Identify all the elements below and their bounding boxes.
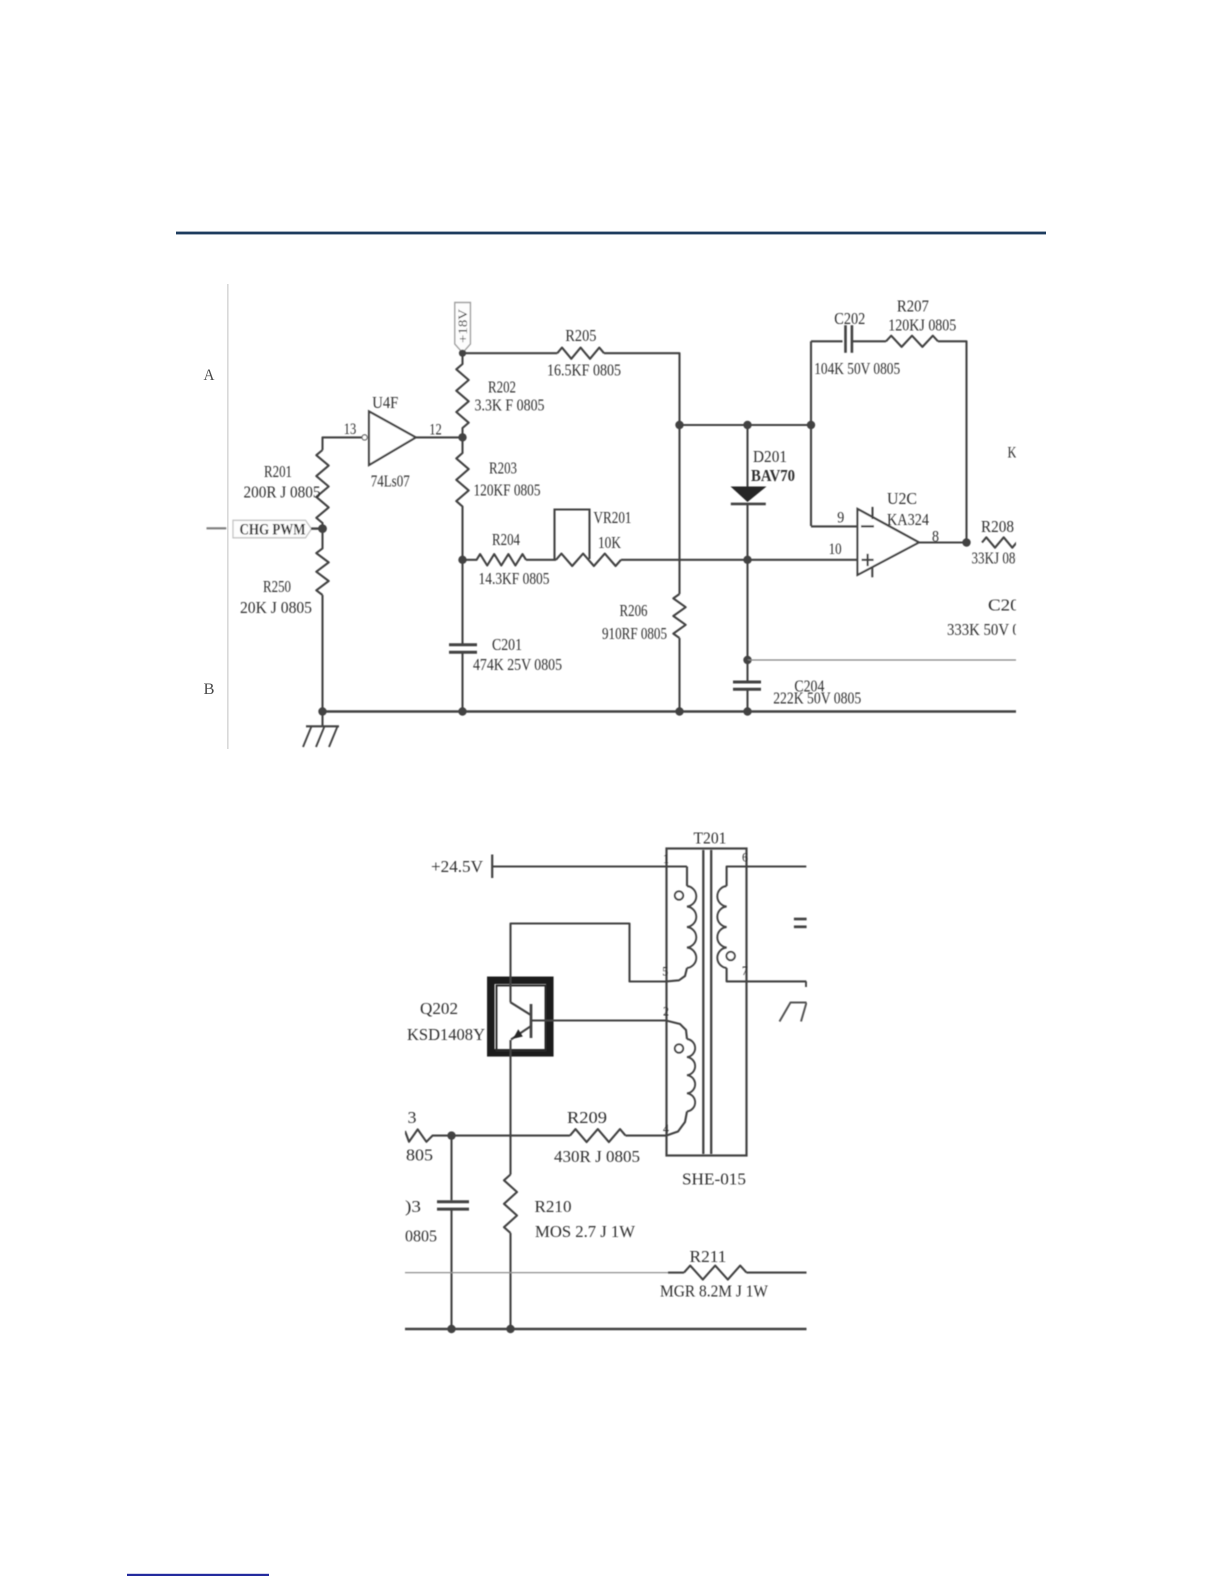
svg-text:CHG PWM: CHG PWM bbox=[240, 522, 306, 539]
pin 1 bbox=[663, 851, 669, 866]
clipped resistor left bbox=[405, 1129, 452, 1141]
label R208 bbox=[981, 517, 1014, 536]
node at x811 bbox=[807, 421, 815, 429]
wire node to C201 bbox=[461, 560, 463, 644]
label R204 bbox=[492, 530, 520, 549]
svg-text:120KF 0805: 120KF 0805 bbox=[474, 481, 541, 500]
wire junction to R209 bbox=[452, 1135, 571, 1137]
svg-text:12: 12 bbox=[429, 422, 442, 439]
svg-text:R209: R209 bbox=[567, 1108, 607, 1127]
pin 9 bbox=[837, 510, 844, 527]
clipped value 0805 bbox=[405, 1226, 437, 1245]
wire R211 right lead bbox=[747, 1272, 807, 1274]
wire junction to cap bbox=[450, 1136, 452, 1201]
svg-text:VR201: VR201 bbox=[594, 508, 632, 527]
wire thin R211 line bbox=[405, 1272, 668, 1274]
transistor Q202 frame bbox=[491, 980, 550, 1053]
svg-text:MOS 2.7 J 1W: MOS 2.7 J 1W bbox=[535, 1222, 636, 1241]
waveform symbol clipped bbox=[780, 1003, 807, 1022]
svg-text:R201: R201 bbox=[264, 462, 292, 481]
svg-text:74Ls07: 74Ls07 bbox=[371, 472, 410, 491]
svg-text:C201: C201 bbox=[492, 635, 522, 654]
svg-text:KA324: KA324 bbox=[887, 510, 929, 529]
node C204 rail junction bbox=[743, 707, 751, 715]
phase dot secondary bbox=[727, 952, 735, 960]
node at x747 bbox=[743, 421, 751, 429]
svg-text:4: 4 bbox=[663, 1121, 669, 1136]
node CHG PWM junction bbox=[318, 524, 327, 533]
label KSD1408Y bbox=[407, 1025, 485, 1044]
wire C202 to R207 bbox=[852, 340, 886, 342]
node R206 rail junction bbox=[675, 707, 683, 715]
svg-text:10K: 10K bbox=[598, 533, 622, 552]
wire CHG PWM to node bbox=[311, 527, 324, 529]
svg-text:K: K bbox=[1008, 444, 1017, 461]
svg-text:R211: R211 bbox=[690, 1247, 727, 1266]
pin 5 bbox=[662, 963, 668, 978]
pin 4 bbox=[663, 1121, 669, 1136]
wire R210 to rail bbox=[509, 1233, 511, 1329]
phase dot primary top bbox=[675, 891, 683, 899]
svg-text:R204: R204 bbox=[492, 530, 520, 549]
diode D201 BAV70 bbox=[731, 487, 766, 504]
capacitor C-lower bbox=[437, 1202, 469, 1209]
svg-text:U4F: U4F bbox=[372, 393, 398, 412]
ground bbox=[303, 712, 339, 748]
svg-text:13: 13 bbox=[344, 421, 357, 438]
node R209 left junction bbox=[447, 1131, 455, 1139]
svg-text:0805: 0805 bbox=[405, 1226, 437, 1245]
label R203 bbox=[489, 458, 517, 477]
value C201 bbox=[473, 655, 562, 674]
svg-text:20K J 0805: 20K J 0805 bbox=[240, 598, 312, 617]
svg-text:16.5KF 0805: 16.5KF 0805 bbox=[547, 360, 621, 379]
net label CHG PWM bbox=[233, 520, 312, 538]
svg-text:+24.5V: +24.5V bbox=[431, 857, 484, 876]
label R209 bbox=[567, 1108, 607, 1127]
value R211 bbox=[660, 1281, 769, 1300]
capacitor C202 bbox=[846, 325, 852, 353]
wire emitter bbox=[509, 1040, 511, 1175]
svg-text:6: 6 bbox=[742, 850, 748, 865]
row label A bbox=[204, 367, 216, 384]
svg-text:3: 3 bbox=[408, 1108, 417, 1127]
winding primary top bbox=[667, 867, 697, 982]
label R207 bbox=[897, 296, 929, 315]
label SHE-015 bbox=[682, 1169, 746, 1188]
svg-text:5: 5 bbox=[662, 963, 668, 978]
top rule bbox=[176, 232, 1046, 235]
resistor R209 bbox=[570, 1129, 626, 1142]
wire ground rail bbox=[323, 710, 1017, 712]
pin 13 bbox=[344, 421, 357, 438]
svg-text:+18V: +18V bbox=[456, 309, 470, 343]
value R205 bbox=[547, 360, 621, 379]
phase dot primary bottom bbox=[675, 1044, 683, 1052]
row label B bbox=[204, 681, 215, 698]
label Q202 bbox=[420, 999, 458, 1018]
value R207 bbox=[888, 316, 956, 335]
wire node row bbox=[680, 424, 812, 426]
wire R250 to ground rail bbox=[321, 595, 323, 712]
transformer T201 outer box bbox=[667, 849, 747, 1156]
svg-text:T201: T201 bbox=[694, 828, 727, 847]
resistor R207 bbox=[886, 336, 938, 347]
label R250 bbox=[263, 577, 291, 596]
svg-text:3.3K F 0805: 3.3K F 0805 bbox=[475, 396, 545, 415]
wire C201 to rail bbox=[461, 653, 463, 712]
svg-text:SHE-015: SHE-015 bbox=[682, 1169, 746, 1188]
wire R211 left lead bbox=[668, 1272, 684, 1274]
wire C204 leads bbox=[746, 660, 748, 712]
value R250 bbox=[240, 598, 312, 617]
potentiometer VR201 bbox=[555, 510, 622, 567]
wire R207 to right vertical bbox=[938, 341, 967, 542]
U4F input bubble bbox=[362, 435, 367, 440]
wire +18V to R205 bbox=[463, 352, 558, 354]
wire opamp output bbox=[919, 541, 967, 543]
svg-text:10: 10 bbox=[829, 541, 842, 558]
svg-text:R203: R203 bbox=[489, 458, 517, 477]
svg-text:14.3KF 0805: 14.3KF 0805 bbox=[479, 569, 550, 588]
resistor R202 bbox=[456, 353, 468, 437]
svg-text:KSD1408Y: KSD1408Y bbox=[407, 1025, 485, 1044]
left margin line bbox=[227, 284, 229, 749]
value R209 bbox=[554, 1147, 640, 1166]
resistor R201 bbox=[316, 450, 328, 528]
resistor R204 bbox=[463, 554, 527, 565]
svg-text:)3: )3 bbox=[405, 1197, 421, 1216]
svg-text:2: 2 bbox=[663, 1003, 669, 1018]
wire R205 to corner bbox=[604, 353, 680, 425]
label U2C bbox=[887, 489, 917, 508]
value C202 bbox=[814, 359, 900, 378]
svg-text:A: A bbox=[204, 367, 216, 384]
node R203 bottom junction bbox=[458, 556, 466, 564]
capacitor C201 bbox=[449, 645, 477, 652]
svg-text:C202: C202 bbox=[834, 309, 865, 328]
resistor R211 bbox=[684, 1266, 747, 1280]
wire U4F output bbox=[416, 436, 463, 438]
pin 2 bbox=[663, 1003, 669, 1018]
label T201 bbox=[694, 828, 727, 847]
node emitter rail junction bbox=[506, 1325, 514, 1333]
svg-text:R207: R207 bbox=[897, 296, 929, 315]
svg-text:B: B bbox=[204, 681, 215, 698]
clipped value C203 bbox=[947, 620, 1042, 639]
svg-text:R205: R205 bbox=[565, 326, 596, 345]
op-amp U4F buffer bbox=[369, 411, 416, 465]
svg-text:120KJ 0805: 120KJ 0805 bbox=[888, 316, 956, 335]
label D201 bbox=[753, 447, 787, 466]
wire +24.5V rail bbox=[492, 865, 687, 867]
wire R206 to rail bbox=[678, 638, 680, 712]
power label +24.5V bbox=[431, 855, 492, 879]
node at x679 bbox=[675, 421, 683, 429]
label R202 bbox=[488, 377, 516, 396]
label R210 bbox=[535, 1197, 572, 1216]
wire feedback left vertical bbox=[810, 341, 812, 526]
resistor R208 bbox=[982, 537, 1034, 547]
wire R204 to VR201 bbox=[526, 559, 556, 561]
wire VR201 to opamp plus bbox=[621, 559, 858, 561]
value R204 bbox=[479, 569, 550, 588]
wire lower ground rail bbox=[405, 1328, 807, 1330]
winding primary bottom bbox=[667, 1021, 696, 1136]
label R205 bbox=[565, 326, 596, 345]
label R206 bbox=[620, 601, 648, 620]
svg-text:200R J 0805: 200R J 0805 bbox=[244, 482, 321, 501]
clipped label 3 bbox=[408, 1108, 417, 1127]
svg-text:430R J 0805: 430R J 0805 bbox=[554, 1147, 640, 1166]
clipped value 805 bbox=[406, 1145, 433, 1164]
svg-text:R202: R202 bbox=[488, 377, 516, 396]
wire top to C202 bbox=[811, 340, 843, 342]
wire x679 down bbox=[678, 425, 680, 594]
node ground junction bbox=[318, 707, 326, 715]
node D201 pin10 junction bbox=[743, 556, 751, 564]
pin 8 bbox=[932, 528, 939, 545]
wire pin7 bottom bbox=[727, 968, 807, 987]
pin 12 bbox=[429, 422, 442, 439]
wire base bbox=[531, 1019, 667, 1021]
svg-text:910RF 0805: 910RF 0805 bbox=[602, 624, 667, 643]
resistor R206 bbox=[673, 594, 685, 638]
svg-text:R208: R208 bbox=[981, 517, 1014, 536]
node +18V junction bbox=[459, 350, 466, 357]
label KA324 bbox=[887, 510, 929, 529]
svg-text:104K 50V 0805: 104K 50V 0805 bbox=[814, 359, 900, 378]
wire D201 anode bbox=[746, 425, 748, 487]
wire cap to rail bbox=[450, 1209, 452, 1329]
wire pin6 top bbox=[727, 867, 807, 887]
label C201 bbox=[492, 635, 522, 654]
label C202 bbox=[834, 309, 865, 328]
left tick for CHG PWM bbox=[207, 527, 227, 529]
pin 7 bbox=[742, 963, 748, 978]
svg-text:Q202: Q202 bbox=[420, 999, 458, 1018]
value R202 bbox=[475, 396, 545, 415]
value R201 bbox=[244, 482, 321, 501]
battery symbol clipped bbox=[794, 919, 807, 927]
bottom-left blue rule bbox=[127, 1574, 269, 1576]
value R208 bbox=[972, 548, 1029, 567]
node D201 thin-line junction bbox=[743, 656, 751, 664]
svg-text:805: 805 bbox=[406, 1145, 433, 1164]
svg-text:D201: D201 bbox=[753, 447, 787, 466]
node C201 rail junction bbox=[458, 707, 466, 715]
label R201 bbox=[264, 462, 292, 481]
svg-text:1: 1 bbox=[663, 851, 669, 866]
resistor R203 bbox=[456, 437, 468, 559]
svg-text:9: 9 bbox=[837, 510, 844, 527]
node output junction bbox=[962, 538, 970, 546]
clipped label 03 bbox=[405, 1197, 421, 1216]
resistor R205 bbox=[557, 348, 604, 359]
pin 10 bbox=[829, 541, 842, 558]
capacitor C204 bbox=[733, 682, 761, 689]
node 12 junction bbox=[458, 433, 466, 441]
resistor R250 bbox=[316, 528, 328, 596]
label U4F bbox=[372, 393, 398, 412]
wire collector bbox=[511, 924, 667, 1003]
transformer core bbox=[703, 850, 711, 1154]
svg-text:BAV70: BAV70 bbox=[751, 466, 795, 485]
label R211 bbox=[690, 1247, 727, 1266]
clipped label C203 bbox=[988, 595, 1029, 614]
value R203 bbox=[474, 481, 541, 500]
winding secondary bbox=[717, 886, 726, 968]
wire R209 to pin4 bbox=[626, 1135, 667, 1137]
value R206 bbox=[602, 624, 667, 643]
label VR201 bbox=[594, 508, 632, 527]
svg-text:MGR 8.2M J 1W: MGR 8.2M J 1W bbox=[660, 1281, 769, 1300]
transistor Q202 symbol bbox=[510, 1002, 531, 1039]
svg-text:R206: R206 bbox=[620, 601, 648, 620]
value R210 bbox=[535, 1222, 636, 1241]
svg-text:R250: R250 bbox=[263, 577, 291, 596]
svg-text:7: 7 bbox=[742, 963, 748, 978]
label 74Ls07 bbox=[371, 472, 410, 491]
value C204 bbox=[773, 689, 861, 708]
resistor R210 bbox=[504, 1175, 517, 1234]
label C204 bbox=[794, 677, 824, 696]
node cap rail junction bbox=[447, 1325, 455, 1333]
svg-text:222K 50V 0805: 222K 50V 0805 bbox=[773, 689, 861, 708]
clipped label K bbox=[1008, 444, 1017, 461]
wire thin output line bbox=[748, 659, 1017, 661]
value VR201 bbox=[598, 533, 622, 552]
svg-text:U2C: U2C bbox=[887, 489, 917, 508]
op-amp U2C KA324 bbox=[858, 507, 919, 577]
wire D201 cathode down bbox=[746, 504, 748, 659]
wire pin9 stub bbox=[811, 525, 858, 527]
value D201 bbox=[751, 466, 795, 485]
svg-text:474K 25V 0805: 474K 25V 0805 bbox=[473, 655, 562, 674]
pin 6 bbox=[742, 850, 748, 865]
wire R201 top lead bend to U4F input bbox=[323, 437, 363, 450]
power +18V flag bbox=[455, 303, 471, 353]
svg-text:R210: R210 bbox=[535, 1197, 572, 1216]
